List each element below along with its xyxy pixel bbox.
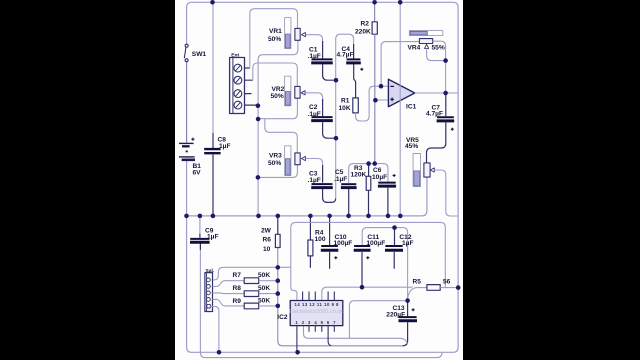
junction dots bottom border [217, 350, 222, 355]
svg-text:IC1: IC1 [406, 104, 417, 111]
svg-text:Ent: Ent [231, 52, 239, 58]
wire Ent pin3 to VR3 top [265, 119, 298, 153]
junction dots bias node [366, 161, 371, 166]
svg-text:.1µF: .1µF [308, 53, 321, 60]
svg-text:Electronics2000.co.uk: Electronics2000.co.uk [289, 309, 343, 315]
IC2 chip body [290, 301, 343, 326]
svg-text:100µF: 100µF [334, 240, 353, 247]
capacitor C6 [378, 174, 396, 216]
svg-text:C5: C5 [335, 169, 344, 176]
IC2 bottom pin stubs [297, 326, 334, 353]
svg-text:4.7µF: 4.7µF [337, 51, 354, 58]
svg-text:R5: R5 [413, 279, 422, 286]
Ent pin stubs [245, 68, 258, 105]
svg-text:VR1: VR1 [269, 28, 282, 35]
junction dots top rail [210, 0, 215, 5]
svg-text:120K: 120K [351, 171, 367, 178]
svg-text:50K: 50K [258, 298, 270, 305]
svg-text:VR4: VR4 [408, 45, 421, 52]
wire Sal square pad to bottom border [210, 306, 219, 352]
svg-text:14 13 12 11 10 9 8: 14 13 12 11 10 9 8 [295, 302, 340, 307]
svg-text:50%: 50% [268, 160, 281, 167]
wire VR2 wiper to C2 [305, 93, 323, 100]
wire mixing bus to C4 [336, 34, 354, 198]
switch SW1 [184, 44, 188, 62]
capacitor C4 [346, 44, 363, 98]
wire Sal pin1 to bus and R4 column [213, 267, 291, 280]
potentiometer VR3 [285, 146, 306, 176]
IC2 top pin stubs [303, 292, 335, 301]
wire battery to bottom-left corner [186, 160, 188, 347]
wire VR3 bottom to bus node [258, 165, 298, 178]
wire VR2 bottom to bus node [258, 98, 297, 119]
potentiometer VR5 (volume) [413, 154, 458, 217]
svg-text:50K: 50K [258, 272, 270, 279]
wire ground bus of Ent channels [257, 106, 259, 216]
junction dots bottom network [392, 225, 397, 230]
resistor R8 with leads [213, 291, 278, 297]
junction dots input channel bus [256, 103, 261, 108]
svg-text:VR3: VR3 [269, 153, 282, 160]
capacitor C13 [399, 301, 418, 346]
svg-text:1 2 3 4 5 6 7: 1 2 3 4 5 6 7 [296, 320, 337, 325]
svg-text:R2: R2 [361, 21, 370, 28]
resistor R5 [408, 285, 459, 301]
op-amp IC1 [375, 79, 458, 107]
svg-text:10K: 10K [339, 105, 351, 112]
potentiometer VR1 [285, 18, 306, 49]
wire VR3 wiper to C3 [305, 159, 322, 167]
capacitor C1 [311, 41, 336, 80]
svg-text:50%: 50% [268, 36, 281, 43]
potentiometer VR4 (feedback) [409, 31, 445, 93]
wire supply vertical through IC1 [399, 2, 401, 216]
wire IC2 pin2 column lower rail [304, 326, 408, 344]
svg-text:.1µF: .1µF [334, 176, 347, 183]
battery B1 [179, 138, 195, 160]
svg-text:R1: R1 [341, 98, 350, 105]
resistor R1 [353, 98, 359, 113]
svg-text:50%: 50% [271, 93, 284, 100]
capacitor C10 [321, 216, 339, 269]
svg-text:45%: 45% [405, 143, 418, 150]
potentiometer VR2 [285, 76, 306, 106]
connector Sal (output terminal block) [205, 273, 213, 312]
wire bias node to C5 C6 R3 [349, 164, 388, 183]
svg-text:100µF: 100µF [366, 240, 385, 247]
capacitor C2 [311, 99, 336, 138]
svg-text:2W: 2W [261, 227, 272, 234]
wire IC2 side column to C13 node [349, 301, 407, 339]
svg-text:1µF: 1µF [219, 143, 231, 150]
wire inverting input to VR4 left [381, 42, 419, 87]
resistor R6 and left bus [275, 216, 402, 346]
svg-text:R7: R7 [233, 272, 242, 279]
svg-text:SW1: SW1 [192, 51, 207, 58]
svg-text:10µF: 10µF [372, 174, 387, 181]
wire SW1 to battery [186, 62, 188, 143]
junction dots VR4 and output [443, 58, 448, 63]
svg-text:1µF: 1µF [402, 240, 414, 247]
junction dots ground rail [184, 214, 189, 219]
svg-text:R9: R9 [233, 298, 242, 305]
capacitor C5 [341, 184, 357, 216]
wire VR1 bottom to node bus [258, 40, 298, 105]
wire left border upper (to SW1) [187, 2, 192, 44]
svg-text:55%: 55% [432, 45, 445, 52]
connector Ent (4-way terminal block) [230, 58, 245, 114]
svg-text:.1µF: .1µF [308, 177, 321, 184]
svg-text:.1µF: .1µF [308, 111, 321, 118]
svg-text:Sal.: Sal. [206, 268, 215, 274]
svg-text:220µF: 220µF [386, 312, 405, 319]
ground rail [187, 177, 427, 216]
resistor R9 with leads [213, 299, 278, 308]
wire R1 bottom loop to inverting input [356, 86, 381, 121]
svg-text:R6: R6 [263, 237, 272, 244]
capacitor C7 (output electrolytic) [427, 93, 455, 163]
resistor R7 with leads [213, 278, 278, 287]
wire C9 column to lower bus [200, 244, 442, 358]
wire IC2 pin14 column to second rail to R5 right column [291, 222, 446, 300]
junction dots left bus [276, 265, 281, 270]
svg-text:1µF: 1µF [207, 233, 219, 240]
resistor R4 [308, 216, 313, 268]
wire Ent pin1 to VR1 top [250, 9, 298, 68]
capacitor C8 [204, 2, 220, 216]
svg-text:C6: C6 [373, 167, 382, 174]
wire Ent pin2 to VR2 top [253, 63, 297, 86]
resistor R3 [366, 164, 371, 216]
svg-text:10: 10 [263, 246, 271, 253]
svg-text:50K: 50K [258, 285, 270, 292]
svg-text:R8: R8 [233, 285, 242, 292]
wire VR1 wiper to C1 [305, 35, 322, 42]
capacitor C3 [311, 165, 336, 202]
wire right border [453, 7, 458, 352]
svg-text:IC2: IC2 [277, 314, 288, 321]
svg-text:6V: 6V [193, 170, 202, 177]
capacitor C12 [385, 228, 403, 269]
wire top border (V+ rail) [192, 2, 459, 7]
svg-text:220K: 220K [355, 28, 371, 35]
svg-text:4.7µF: 4.7µF [426, 110, 443, 117]
wire C11 top feed from second rail [362, 228, 407, 301]
white schematic panel [175, 0, 463, 360]
resistor R2 with bias wire [372, 2, 377, 163]
capacitor C9 [190, 216, 210, 250]
junction dots op-amp inputs [379, 84, 384, 89]
svg-text:VR2: VR2 [272, 86, 285, 93]
junction dots mixing bus [334, 78, 339, 83]
wire bottom border [187, 347, 453, 352]
wire IC2 pin10 to R5 left node [322, 287, 413, 300]
svg-text:100: 100 [315, 236, 326, 243]
svg-text:56: 56 [443, 279, 451, 286]
capacitor C11 [354, 246, 371, 287]
